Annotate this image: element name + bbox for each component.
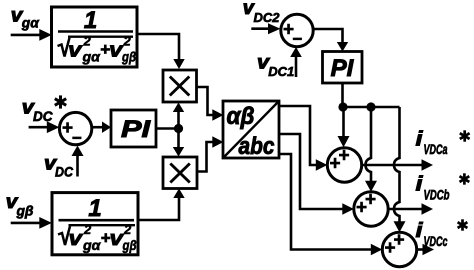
block B1 1/sqrt(vga^2+vgb^2) [52, 7, 138, 67]
star on i_VDCa* [460, 130, 470, 141]
node N2 [338, 102, 347, 111]
star on i_VDCc* [458, 219, 468, 230]
wire bus corner down to summer Sc (hops over Sa and Sb outputs) [394, 107, 406, 232]
label v_DC* [22, 98, 53, 125]
wire v_gb input arrow [11, 217, 52, 229]
wire transform out b to summer Sb [279, 134, 354, 215]
svg-text:v: v [68, 40, 84, 62]
block B2 1/sqrt(vga^2+vgb^2) [52, 193, 138, 255]
wire PI1 output to node N1 [156, 127, 179, 130]
svg-text:VDCb: VDCb [424, 188, 450, 203]
label v_gb [6, 192, 34, 219]
multiplier M2 [163, 157, 197, 189]
star on v_DC* [55, 95, 66, 108]
wire Sa output arrow [362, 159, 433, 170]
wire v_DC2 input arrow [251, 23, 280, 34]
svg-text:i: i [416, 129, 424, 151]
wire N3 down to summer Sb (hop over Sa output) [365, 107, 377, 192]
star on i_VDCb* [460, 173, 470, 184]
wire Sc output arrow [417, 244, 434, 255]
wire M1 to transform block [197, 87, 224, 121]
svg-text:+: + [384, 238, 395, 259]
label i_VDCb* [416, 174, 450, 203]
label i_VDCa* [416, 129, 448, 157]
label v_DC2 [243, 0, 280, 25]
svg-text:DC2: DC2 [254, 10, 281, 25]
PI controller PI2 [323, 52, 363, 84]
wire v_ga input arrow [11, 29, 52, 41]
svg-text:1: 1 [88, 195, 101, 222]
multiplier M1 [163, 70, 197, 102]
summing junction Sa [327, 146, 361, 183]
svg-text:DC: DC [55, 164, 73, 179]
label i_VDCc* [416, 220, 448, 249]
summing junction S2 [281, 14, 313, 48]
svg-text:DC1: DC1 [268, 64, 294, 79]
svg-text:+: + [329, 154, 340, 175]
wire v_DC1 feedback arrow [290, 47, 302, 77]
svg-text:2: 2 [123, 222, 132, 237]
svg-text:PI: PI [331, 55, 355, 82]
label v_ga [11, 5, 40, 30]
label v_DC1 [257, 53, 294, 80]
svg-text:gα: gα [21, 16, 40, 31]
wire v_DC* input arrow [29, 121, 60, 133]
svg-text:+: + [356, 198, 367, 219]
wire v_DC feedback arrow [72, 146, 84, 177]
PI controller PI1 [111, 110, 156, 147]
node N3 [366, 102, 375, 111]
svg-text:gβ: gβ [122, 238, 137, 253]
svg-text:1: 1 [84, 7, 97, 34]
svg-text:VDCc: VDCc [424, 234, 448, 249]
wire PI2 output bus [343, 83, 400, 107]
svg-text:DC: DC [33, 109, 53, 124]
wire transform out c to summer Sc [279, 154, 382, 255]
svg-text:v: v [69, 228, 85, 250]
svg-text:αβ: αβ [227, 103, 255, 130]
svg-text:gα: gα [82, 238, 101, 253]
summing junction S1 [59, 112, 91, 147]
wire N2 down to summer Sa [338, 107, 350, 147]
summing junction Sb [354, 190, 388, 227]
wire M2 to transform block [197, 136, 223, 171]
summing junction Sc [382, 230, 416, 267]
svg-text:VDCa: VDCa [424, 142, 448, 157]
wire S2 to PI2 [313, 29, 348, 52]
wire N1 down to M2 [173, 129, 184, 157]
svg-text:i: i [416, 174, 424, 196]
svg-text:i: i [416, 220, 424, 242]
node N1 [174, 124, 183, 133]
svg-text:−: − [293, 30, 303, 49]
wire B1 to multiplier M1 [137, 34, 185, 69]
svg-text:2: 2 [123, 34, 132, 49]
wire B2 to multiplier M2 [138, 189, 185, 221]
label v_DC (feedback) [44, 154, 73, 180]
transform block alpha-beta to abc [223, 101, 279, 160]
svg-text:2: 2 [83, 34, 92, 49]
svg-text:abc: abc [239, 133, 275, 160]
svg-text:gβ: gβ [15, 204, 33, 219]
svg-text:gβ: gβ [121, 50, 136, 65]
wire Sb output arrow [388, 203, 433, 214]
wire N1 up to M1 [173, 103, 184, 129]
wire S1 to PI1 [92, 122, 111, 133]
wire transform out a to summer Sa [279, 106, 327, 171]
svg-text:PI: PI [121, 116, 152, 143]
svg-text:gα: gα [81, 50, 100, 65]
svg-text:2: 2 [83, 222, 92, 237]
svg-text:−: − [72, 129, 82, 148]
